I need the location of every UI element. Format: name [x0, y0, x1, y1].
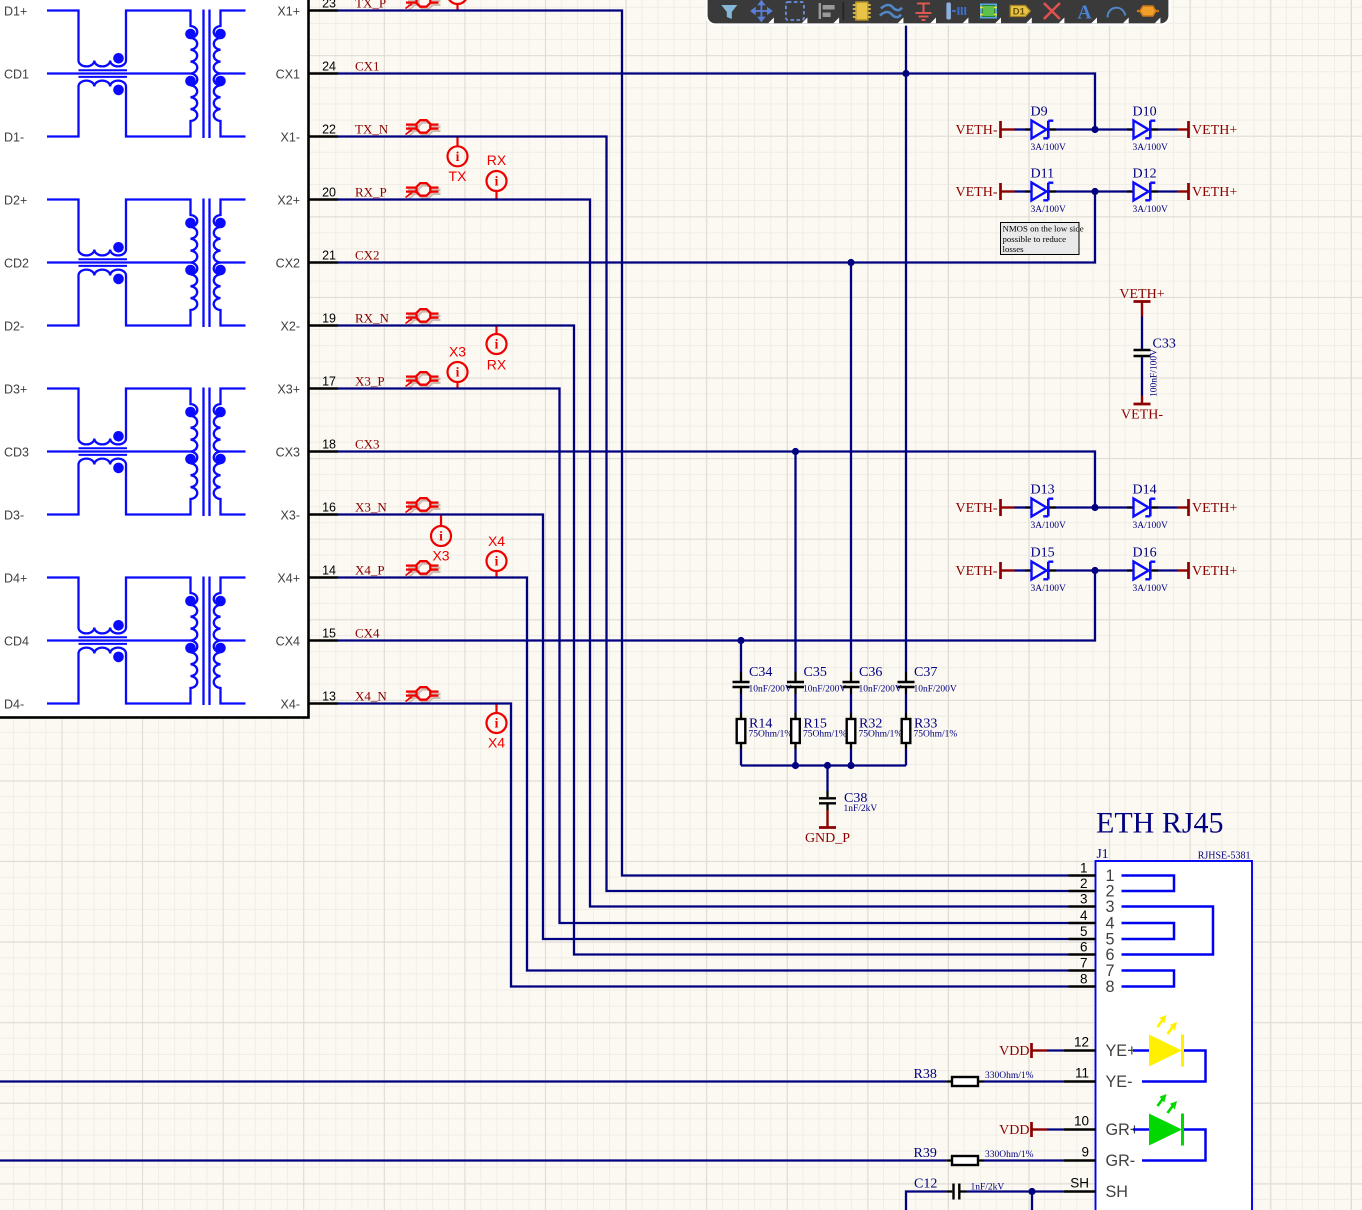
- differential pair directive on X4_N: [406, 687, 441, 704]
- net label RX_P: [355, 184, 387, 199]
- pin 18 CX3 of magnetics (name CX3): [276, 437, 338, 459]
- wire junction to D12: [1095, 190, 1127, 192]
- wire VETH- to D13: [1015, 506, 1026, 508]
- wire CX3 from pin 18 to D13/D14 junction: [338, 452, 1095, 508]
- junction rail/R32: [847, 762, 854, 769]
- pin name D4-: [4, 697, 24, 711]
- svg-text:D11: D11: [1031, 167, 1055, 182]
- svg-text:YE-: YE-: [1106, 1073, 1133, 1091]
- svg-text:23: 23: [322, 0, 336, 10]
- wire X3_P from pin to RJ45: [338, 389, 1069, 924]
- svg-text:1: 1: [1080, 860, 1088, 875]
- pin name D2-: [4, 319, 24, 333]
- differential pair directive on RX_P: [406, 183, 441, 200]
- capacitor C37 10nF/200V: [898, 665, 957, 695]
- wire R33 to common rail: [905, 749, 907, 766]
- wire CX1 from pin 24 to D9/D10 junction: [338, 74, 1095, 130]
- svg-text:X3_P: X3_P: [355, 373, 385, 388]
- svg-text:11: 11: [1075, 1066, 1089, 1081]
- svg-text:CX4: CX4: [355, 625, 380, 640]
- wire R32 to common rail: [850, 749, 852, 766]
- svg-text:X2-: X2-: [281, 319, 300, 333]
- svg-text:D1-: D1-: [4, 130, 24, 144]
- pin 20 RX_P of magnetics (name X2+): [277, 185, 338, 207]
- svg-text:GR-: GR-: [1106, 1152, 1136, 1170]
- svg-text:SH: SH: [1106, 1183, 1129, 1201]
- svg-text:C12: C12: [914, 1177, 937, 1192]
- title ETH RJ45: [1096, 807, 1224, 840]
- differential pair directive on X3_N: [406, 498, 441, 515]
- svg-text:19: 19: [322, 311, 336, 325]
- LED green (GR): [1133, 1094, 1206, 1161]
- resistor R38 330Ohm/1%: [914, 1067, 1034, 1086]
- net label X4_P: [355, 562, 385, 577]
- capacitor C35 10nF/200V: [787, 665, 846, 695]
- svg-text:i: i: [456, 0, 460, 2]
- power port VETH+: [1177, 121, 1237, 138]
- capacitor C38 1nF/2kV: [819, 766, 877, 814]
- svg-text:3A/100V: 3A/100V: [1133, 205, 1169, 215]
- wire SH branch down: [1031, 1192, 1033, 1210]
- capacitor C12 1nF/2kV: [914, 1177, 1004, 1200]
- pin name CD1: [4, 67, 29, 81]
- svg-text:10nF/200V: 10nF/200V: [914, 685, 957, 695]
- wire X3_N from pin to RJ45: [338, 515, 1069, 940]
- junction D15/D16: [1091, 567, 1098, 574]
- svg-text:ETH RJ45: ETH RJ45: [1096, 807, 1224, 840]
- wire D12 to VETH+: [1158, 190, 1177, 192]
- svg-text:22: 22: [322, 122, 336, 136]
- RJ45 pin SH (SH): [1064, 1176, 1128, 1202]
- svg-text:14: 14: [322, 563, 336, 577]
- svg-text:3A/100V: 3A/100V: [1031, 143, 1067, 153]
- directive marker X3 on X3_P: [448, 344, 468, 389]
- wire C34 to R14: [740, 694, 742, 713]
- svg-text:D3+: D3+: [4, 382, 27, 396]
- svg-text:12: 12: [1074, 1035, 1089, 1050]
- svg-text:9: 9: [1081, 1145, 1089, 1160]
- svg-text:3: 3: [1080, 891, 1088, 906]
- floating toolbar (active bar): [707, 0, 1170, 25]
- capacitor C36 10nF/200V: [843, 665, 902, 695]
- wire X4_P from pin to RJ45: [338, 578, 1069, 971]
- RJ45 pin 10 (GR+): [1064, 1114, 1139, 1140]
- svg-text:18: 18: [322, 437, 336, 451]
- svg-text:5: 5: [1080, 924, 1088, 939]
- pin 13 X4_N of magnetics (name X4-): [281, 689, 338, 711]
- wire from left edge to C12 (turns down at x=906): [906, 1192, 946, 1210]
- junction D9/D10: [1091, 126, 1098, 133]
- capacitor C34 10nF/200V: [733, 665, 792, 695]
- directive marker RX on RX_P: [487, 152, 507, 200]
- svg-text:CD3: CD3: [4, 445, 29, 459]
- net label CX3: [355, 436, 380, 451]
- svg-text:VETH-: VETH-: [956, 123, 998, 138]
- svg-text:D13: D13: [1031, 483, 1055, 498]
- svg-text:D1: D1: [1013, 7, 1026, 18]
- power port VETH-: [956, 499, 1015, 516]
- svg-text:330Ohm/1%: 330Ohm/1%: [985, 1150, 1034, 1160]
- wire CX4 branch down to C34: [740, 641, 742, 673]
- net label X3_N: [355, 499, 387, 514]
- svg-text:10nF/200V: 10nF/200V: [859, 685, 902, 695]
- svg-text:D12: D12: [1133, 167, 1157, 182]
- wire X4_N from pin to RJ45: [338, 704, 1069, 987]
- wire VDD to RJ45 pin 10: [1047, 1128, 1064, 1130]
- svg-text:i: i: [495, 174, 499, 189]
- wire C37 to R33: [905, 694, 907, 713]
- differential pair directive on TX_N: [406, 120, 441, 137]
- svg-text:X4+: X4+: [277, 571, 300, 585]
- svg-text:TX_P: TX_P: [355, 0, 386, 10]
- RJ45 pin 2: [1069, 876, 1115, 901]
- transformer T2 common-mode choke + isolation transformer: [47, 199, 246, 328]
- svg-text:D4+: D4+: [4, 571, 27, 585]
- svg-text:RX_N: RX_N: [355, 310, 390, 325]
- wire VETH- to D11: [1015, 190, 1026, 192]
- svg-text:X4: X4: [488, 735, 505, 751]
- RJ45 pin 1: [1069, 860, 1115, 885]
- wire R14 to common rail: [740, 749, 742, 766]
- svg-text:C35: C35: [804, 665, 827, 680]
- wire TX_N from pin to RJ45: [338, 137, 1069, 892]
- net label X3_P: [355, 373, 385, 388]
- pin name D1+: [4, 4, 27, 18]
- svg-text:21: 21: [322, 248, 336, 262]
- svg-text:X3: X3: [432, 548, 449, 564]
- svg-text:X3-: X3-: [281, 508, 300, 522]
- svg-text:VETH-: VETH-: [956, 501, 998, 516]
- power port VETH-: [956, 121, 1015, 138]
- wire RX_N from pin to RJ45: [338, 326, 1069, 955]
- directive marker X4 on X4_N: [487, 704, 507, 751]
- junction CX2/C36: [847, 259, 854, 266]
- svg-text:i: i: [495, 337, 499, 352]
- power port VETH- (below C33): [1121, 396, 1163, 423]
- svg-text:17: 17: [322, 374, 336, 388]
- differential pair directive on RX_N: [406, 309, 441, 326]
- differential pair directive on X4_P: [406, 561, 441, 578]
- svg-text:D1+: D1+: [4, 4, 27, 18]
- svg-text:D14: D14: [1133, 483, 1157, 498]
- svg-text:i: i: [495, 554, 499, 569]
- svg-text:16: 16: [322, 500, 336, 514]
- directive marker TX on TX_N: [448, 137, 468, 185]
- svg-text:CX3: CX3: [276, 445, 300, 459]
- svg-text:NMOS on the low side: NMOS on the low side: [1003, 224, 1084, 234]
- svg-text:losses: losses: [1003, 244, 1025, 254]
- power port VETH-: [956, 183, 1015, 200]
- wire RX_P from pin to RJ45: [338, 200, 1069, 907]
- svg-text:X3: X3: [449, 344, 466, 360]
- wire C12 to SH pin: [967, 1190, 1065, 1192]
- svg-text:3: 3: [1106, 898, 1115, 916]
- power port VETH+: [1177, 562, 1237, 579]
- wire VDD to RJ45 pin 12: [1047, 1049, 1064, 1051]
- RJ45 pin 8: [1069, 971, 1115, 996]
- connector J1 RJHSE-5381 body: [1096, 846, 1253, 1210]
- svg-text:D16: D16: [1133, 546, 1157, 561]
- differential pair directive on X3_P: [406, 372, 441, 389]
- svg-text:2: 2: [1080, 876, 1088, 891]
- svg-text:X1-: X1-: [281, 130, 300, 144]
- svg-text:X2+: X2+: [277, 193, 300, 207]
- junction CX1/C37: [902, 70, 909, 77]
- RJ45 pin 4: [1069, 908, 1115, 933]
- wire CX4 from pin 15 to D15/D16 junction: [338, 571, 1095, 641]
- svg-text:RX: RX: [487, 357, 507, 373]
- svg-text:CD2: CD2: [4, 256, 29, 270]
- wire C36 to R32: [850, 694, 852, 713]
- svg-text:1nF/2kV: 1nF/2kV: [844, 804, 878, 814]
- svg-text:CD4: CD4: [4, 634, 29, 648]
- pin 23 TX_P of magnetics (name X1+): [277, 0, 338, 18]
- svg-text:100nF/100V: 100nF/100V: [1150, 349, 1160, 397]
- wire D15 to junction: [1056, 569, 1095, 571]
- RJ45 pin 9 (GR-): [1064, 1145, 1135, 1171]
- svg-text:C36: C36: [859, 665, 882, 680]
- power port GND_P: [805, 810, 850, 846]
- pin name D1-: [4, 130, 24, 144]
- svg-text:6: 6: [1080, 939, 1088, 954]
- wire D10 to VETH+: [1158, 128, 1177, 130]
- svg-text:YE+: YE+: [1106, 1042, 1137, 1060]
- wire D14 to VETH+: [1158, 506, 1177, 508]
- svg-text:CX2: CX2: [276, 256, 300, 270]
- svg-text:CX1: CX1: [355, 58, 380, 73]
- svg-text:3A/100V: 3A/100V: [1031, 584, 1067, 594]
- svg-text:i: i: [439, 529, 443, 544]
- svg-text:15: 15: [322, 626, 336, 640]
- svg-text:24: 24: [322, 59, 336, 73]
- junction D13/D14: [1091, 504, 1098, 511]
- net label TX_N: [355, 121, 389, 136]
- svg-text:75Ohm/1%: 75Ohm/1%: [803, 729, 847, 739]
- internal connection pins 7-8: [1122, 971, 1175, 987]
- svg-text:8: 8: [1106, 978, 1115, 996]
- directive marker X4 on X4_P: [487, 533, 507, 578]
- pin 15 CX4 of magnetics (name CX4): [276, 626, 338, 648]
- pin name CD4: [4, 634, 29, 648]
- resistor R14 75Ohm/1%: [737, 713, 793, 749]
- LED yellow (YE): [1133, 1015, 1206, 1082]
- svg-text:X3_N: X3_N: [355, 499, 387, 514]
- diode D14 schottky 3A/100V: [1127, 483, 1168, 532]
- power port VETH-: [956, 562, 1015, 579]
- pin 14 X4_P of magnetics (name X4+): [277, 563, 338, 585]
- svg-text:3A/100V: 3A/100V: [1133, 521, 1169, 531]
- internal connection pins 4-5: [1122, 923, 1175, 939]
- svg-text:75Ohm/1%: 75Ohm/1%: [914, 729, 958, 739]
- svg-text:A: A: [1077, 3, 1091, 24]
- svg-text:RX_P: RX_P: [355, 184, 387, 199]
- resistor R39 330Ohm/1%: [914, 1146, 1034, 1165]
- wire D11 to junction: [1056, 190, 1095, 192]
- wire R38 to RJ45 pin 11: [984, 1080, 1064, 1082]
- net label CX1: [355, 58, 380, 73]
- svg-text:D3-: D3-: [4, 508, 24, 522]
- junction SH/C12: [1028, 1188, 1035, 1195]
- svg-text:i: i: [456, 149, 460, 164]
- svg-text:C37: C37: [914, 665, 937, 680]
- svg-text:TX_N: TX_N: [355, 121, 389, 136]
- diode D11 schottky 3A/100V: [1025, 167, 1066, 216]
- svg-text:VETH+: VETH+: [1192, 501, 1237, 516]
- wire C35 to R15: [794, 694, 796, 713]
- svg-text:10nF/200V: 10nF/200V: [803, 685, 846, 695]
- RJ45 pin 12 (YE+): [1064, 1035, 1137, 1061]
- svg-text:3A/100V: 3A/100V: [1031, 205, 1067, 215]
- pin 21 CX2 of magnetics (name CX2): [276, 248, 338, 270]
- pin 19 RX_N of magnetics (name X2-): [281, 311, 338, 333]
- pin name CD2: [4, 256, 29, 270]
- svg-text:RX: RX: [487, 152, 507, 168]
- wire junction to D14: [1095, 506, 1127, 508]
- internal connection pins 1-2: [1122, 876, 1175, 892]
- diode D15 schottky 3A/100V: [1025, 546, 1066, 595]
- wire CX2 from pin 21 to D11/D12 junction: [338, 192, 1095, 263]
- pin name D3+: [4, 382, 27, 396]
- svg-text:3A/100V: 3A/100V: [1133, 143, 1169, 153]
- junction CX3/C35: [792, 448, 799, 455]
- svg-text:R39: R39: [914, 1146, 937, 1161]
- wire CX2 branch down to C36: [850, 263, 852, 673]
- diode D12 schottky 3A/100V: [1127, 167, 1168, 216]
- wire VETH- to D9: [1015, 128, 1026, 130]
- diode D13 schottky 3A/100V: [1025, 483, 1066, 532]
- svg-text:RJHSE-5381: RJHSE-5381: [1198, 851, 1251, 862]
- directive marker on TX_P (cut off at top): [448, 0, 468, 11]
- common rail wire below RC network: [741, 764, 906, 766]
- svg-text:8: 8: [1080, 971, 1088, 986]
- svg-text:CD1: CD1: [4, 67, 29, 81]
- svg-text:D15: D15: [1031, 546, 1055, 561]
- wire R39 to RJ45 pin 9: [984, 1159, 1064, 1161]
- svg-text:VETH+: VETH+: [1192, 123, 1237, 138]
- svg-text:VETH+: VETH+: [1192, 564, 1237, 579]
- RJ45 pin 7: [1069, 955, 1115, 980]
- svg-text:VETH+: VETH+: [1192, 185, 1237, 200]
- RJ45 pin 11 (YE-): [1064, 1066, 1133, 1092]
- note: NMOS on the low side possible to reduce losses: [1001, 223, 1084, 255]
- svg-text:75Ohm/1%: 75Ohm/1%: [859, 729, 903, 739]
- power port VDD (pin 10): [999, 1122, 1047, 1138]
- svg-text:VETH-: VETH-: [956, 564, 998, 579]
- directive marker RX on RX_N: [487, 326, 507, 373]
- power port VDD (pin 12): [999, 1043, 1047, 1059]
- RJ45 pin 3: [1069, 891, 1115, 916]
- svg-text:X4-: X4-: [281, 697, 300, 711]
- wire TX_P from pin to RJ45: [338, 11, 1069, 876]
- svg-text:D10: D10: [1133, 105, 1157, 120]
- junction D11/D12: [1091, 188, 1098, 195]
- svg-text:75Ohm/1%: 75Ohm/1%: [749, 729, 793, 739]
- svg-text:SH: SH: [1070, 1176, 1089, 1191]
- svg-text:i: i: [495, 716, 499, 731]
- svg-text:C34: C34: [749, 665, 772, 680]
- differential pair directive on TX_P: [406, 0, 441, 11]
- svg-text:X4_N: X4_N: [355, 688, 387, 703]
- wire junction to D16: [1095, 569, 1127, 571]
- wire R15 to common rail: [794, 749, 796, 766]
- net label CX4: [355, 625, 380, 640]
- svg-text:VETH+: VETH+: [1119, 287, 1164, 302]
- svg-text:CX3: CX3: [355, 436, 380, 451]
- junction rail/R15: [792, 762, 799, 769]
- svg-text:D2+: D2+: [4, 193, 27, 207]
- pin name D2+: [4, 193, 27, 207]
- svg-text:VETH-: VETH-: [956, 185, 998, 200]
- wire from left edge to R38: [0, 1080, 946, 1082]
- power port VETH+: [1177, 183, 1237, 200]
- junction rail/C38: [824, 762, 831, 769]
- pin 22 TX_N of magnetics (name X1-): [281, 122, 338, 144]
- svg-text:i: i: [456, 365, 460, 380]
- internal connection pins 3-6: [1122, 907, 1214, 955]
- svg-text:X4_P: X4_P: [355, 562, 385, 577]
- power port VETH+ (above C33): [1119, 287, 1164, 317]
- svg-text:VETH-: VETH-: [1121, 408, 1163, 423]
- svg-text:4: 4: [1080, 908, 1088, 923]
- wire junction to D10: [1095, 128, 1127, 130]
- svg-text:VDD: VDD: [999, 1123, 1029, 1138]
- svg-text:20: 20: [322, 185, 336, 199]
- svg-text:GND_P: GND_P: [805, 831, 850, 846]
- svg-text:CX4: CX4: [276, 634, 300, 648]
- diode D16 schottky 3A/100V: [1127, 546, 1168, 595]
- RJ45 pin 6: [1069, 939, 1115, 964]
- pin 16 X3_N of magnetics (name X3-): [281, 500, 338, 522]
- transformer T4 common-mode choke + isolation transformer: [47, 577, 246, 706]
- svg-text:CX2: CX2: [355, 247, 380, 262]
- wire D9 to junction: [1056, 128, 1095, 130]
- net label RX_N: [355, 310, 390, 325]
- wire VETH- to D15: [1015, 569, 1026, 571]
- transformer T1 common-mode choke + isolation transformer: [47, 10, 246, 139]
- svg-text:J1: J1: [1097, 846, 1109, 861]
- junction CX4/C34: [737, 637, 744, 644]
- svg-text:X3+: X3+: [277, 382, 300, 396]
- RJ45 pin 5: [1069, 924, 1115, 949]
- svg-text:VDD: VDD: [999, 1044, 1029, 1059]
- svg-text:D2-: D2-: [4, 319, 24, 333]
- svg-text:330Ohm/1%: 330Ohm/1%: [985, 1071, 1034, 1081]
- wire D13 to junction: [1056, 506, 1095, 508]
- svg-text:X4: X4: [488, 533, 505, 549]
- svg-text:D4-: D4-: [4, 697, 24, 711]
- resistor R15 75Ohm/1%: [791, 713, 847, 749]
- pin 17 X3_P of magnetics (name X3+): [277, 374, 338, 396]
- capacitor C33 100nF/100V: [1134, 317, 1176, 398]
- svg-text:3A/100V: 3A/100V: [1031, 521, 1067, 531]
- power port VETH+: [1177, 499, 1237, 516]
- net label X4_N: [355, 688, 387, 703]
- wire CX3 branch down to C35: [794, 452, 796, 673]
- svg-text:R38: R38: [914, 1067, 937, 1082]
- wire CX1 branch down to C37: [905, 0, 907, 672]
- wire from left edge to R39: [0, 1159, 946, 1161]
- svg-text:10: 10: [1074, 1114, 1089, 1129]
- diode D10 schottky 3A/100V: [1127, 105, 1168, 154]
- svg-text:possible to reduce: possible to reduce: [1003, 234, 1067, 244]
- resistor R33 75Ohm/1%: [902, 713, 958, 749]
- net label TX_P: [355, 0, 386, 10]
- svg-text:10nF/200V: 10nF/200V: [749, 685, 792, 695]
- svg-text:CX1: CX1: [276, 67, 300, 81]
- directive marker X3 on X3_N: [431, 515, 451, 564]
- transformer T3 common-mode choke + isolation transformer: [47, 388, 246, 517]
- wire D16 to VETH+: [1158, 569, 1177, 571]
